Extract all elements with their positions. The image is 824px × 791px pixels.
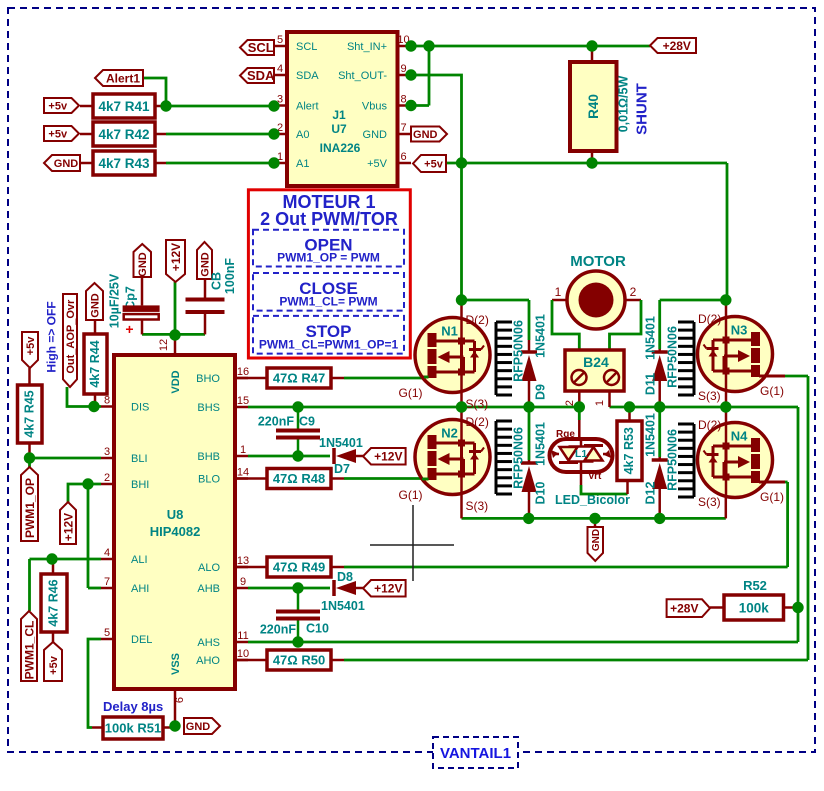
svg-text:Vrt: Vrt	[588, 471, 602, 482]
svg-text:0,01Ω/5W: 0,01Ω/5W	[617, 76, 631, 133]
svg-text:Alert1: Alert1	[106, 71, 140, 85]
svg-text:Delay 8µs: Delay 8µs	[103, 699, 163, 714]
svg-text:RFP50N06: RFP50N06	[512, 320, 526, 382]
svg-text:14: 14	[237, 467, 249, 479]
svg-text:N1: N1	[441, 324, 458, 339]
svg-text:R52: R52	[743, 578, 767, 593]
svg-text:220nF: 220nF	[260, 623, 296, 637]
svg-text:2: 2	[104, 472, 110, 484]
svg-text:G(1): G(1)	[399, 386, 423, 400]
svg-text:S(3): S(3)	[466, 397, 489, 411]
svg-text:VANTAIL1: VANTAIL1	[440, 745, 511, 762]
svg-text:D11: D11	[644, 373, 658, 395]
svg-text:1N5401: 1N5401	[321, 599, 365, 613]
svg-text:S(3): S(3)	[698, 495, 721, 509]
svg-text:MOTOR: MOTOR	[570, 253, 626, 270]
svg-text:+28V: +28V	[670, 601, 698, 615]
svg-text:G(1): G(1)	[760, 384, 784, 398]
svg-text:CB: CB	[210, 272, 224, 290]
svg-text:N4: N4	[731, 429, 748, 444]
svg-text:G(1): G(1)	[399, 488, 423, 502]
svg-text:+12V: +12V	[169, 243, 183, 271]
svg-text:6: 6	[400, 151, 406, 163]
svg-text:N2: N2	[441, 426, 458, 441]
svg-text:L1: L1	[575, 448, 587, 460]
svg-text:BHS: BHS	[197, 402, 220, 414]
svg-text:PWM1_OP: PWM1_OP	[23, 478, 37, 538]
svg-text:2: 2	[630, 285, 637, 299]
svg-text:4k7 R43: 4k7 R43	[98, 156, 150, 171]
svg-text:+: +	[125, 321, 133, 337]
svg-text:VDD: VDD	[170, 370, 182, 393]
svg-text:15: 15	[237, 395, 249, 407]
svg-text:7: 7	[400, 122, 406, 134]
svg-text:+5v: +5v	[424, 158, 444, 170]
svg-text:5: 5	[104, 627, 110, 639]
svg-text:RFP50N06: RFP50N06	[512, 427, 526, 489]
svg-text:GND: GND	[413, 129, 438, 141]
svg-text:1: 1	[555, 285, 562, 299]
svg-text:3: 3	[104, 446, 110, 458]
svg-text:GND: GND	[591, 529, 602, 551]
svg-text:+12V: +12V	[61, 513, 75, 541]
svg-text:47Ω R50: 47Ω R50	[273, 653, 325, 668]
svg-text:4k7 R53: 4k7 R53	[622, 427, 636, 474]
svg-text:4: 4	[277, 63, 283, 75]
svg-text:BLI: BLI	[131, 453, 148, 465]
svg-text:+5v: +5v	[48, 655, 60, 675]
svg-text:220nF: 220nF	[258, 415, 294, 429]
svg-text:R40: R40	[586, 94, 601, 119]
svg-text:1N5401: 1N5401	[534, 422, 548, 466]
svg-text:PWM1_OP = PWM: PWM1_OP = PWM	[277, 251, 380, 265]
svg-text:1N5401: 1N5401	[534, 314, 548, 358]
svg-text:+5v: +5v	[25, 336, 37, 356]
svg-text:100k: 100k	[739, 600, 770, 615]
svg-text:1: 1	[240, 444, 246, 456]
svg-text:4k7 R41: 4k7 R41	[98, 99, 150, 114]
svg-text:RFP50N06: RFP50N06	[666, 326, 680, 388]
svg-text:D(2): D(2)	[698, 312, 721, 326]
svg-text:Sht_IN+: Sht_IN+	[347, 41, 387, 53]
svg-text:J1: J1	[332, 108, 346, 122]
svg-text:+5v: +5v	[48, 100, 68, 112]
svg-text:BHO: BHO	[196, 373, 220, 385]
svg-text:INA226: INA226	[320, 141, 361, 155]
svg-text:DIS: DIS	[131, 402, 149, 414]
svg-text:BLO: BLO	[198, 474, 220, 486]
svg-text:GND: GND	[89, 293, 101, 318]
svg-text:1N5401: 1N5401	[319, 436, 363, 450]
svg-text:SDA: SDA	[296, 70, 319, 82]
svg-text:+12V: +12V	[374, 582, 402, 596]
svg-text:C10: C10	[306, 622, 329, 636]
svg-text:HIP4082: HIP4082	[150, 524, 201, 539]
svg-text:47Ω R47: 47Ω R47	[273, 371, 325, 386]
svg-text:47Ω R48: 47Ω R48	[273, 471, 325, 486]
svg-text:AHO: AHO	[196, 655, 220, 667]
svg-text:G(1): G(1)	[760, 490, 784, 504]
svg-text:Vbus: Vbus	[362, 101, 388, 113]
svg-text:1: 1	[594, 400, 606, 406]
svg-text:BHB: BHB	[197, 451, 220, 463]
svg-text:+5v: +5v	[48, 128, 68, 140]
svg-text:U8: U8	[167, 507, 184, 522]
svg-text:SHUNT: SHUNT	[633, 83, 650, 135]
svg-text:Sht_OUT-: Sht_OUT-	[338, 70, 387, 82]
svg-text:8: 8	[104, 395, 110, 407]
svg-text:9: 9	[240, 576, 246, 588]
svg-text:+28V: +28V	[663, 39, 691, 53]
svg-text:4k7 R44: 4k7 R44	[88, 340, 102, 387]
svg-text:C9: C9	[299, 415, 315, 429]
svg-text:4k7 R42: 4k7 R42	[98, 127, 149, 142]
svg-text:1N5401: 1N5401	[644, 413, 658, 457]
svg-text:D(2): D(2)	[466, 415, 489, 429]
svg-text:A1: A1	[296, 158, 309, 170]
svg-text:RFP50N06: RFP50N06	[666, 429, 680, 491]
svg-text:D10: D10	[534, 481, 548, 504]
svg-text:7: 7	[104, 576, 110, 588]
svg-text:N3: N3	[731, 323, 748, 338]
svg-text:D(2): D(2)	[466, 313, 489, 327]
svg-text:SCL: SCL	[296, 41, 317, 53]
svg-text:D(2): D(2)	[698, 418, 721, 432]
svg-text:B24: B24	[583, 354, 609, 370]
svg-text:GND: GND	[363, 129, 388, 141]
svg-text:AHS: AHS	[197, 637, 220, 649]
svg-text:GND: GND	[137, 252, 149, 277]
svg-text:ALI: ALI	[131, 554, 148, 566]
svg-text:5: 5	[277, 34, 283, 46]
svg-text:4: 4	[104, 547, 110, 559]
svg-text:PWM1_CL: PWM1_CL	[22, 621, 36, 680]
svg-text:100k R51: 100k R51	[105, 721, 161, 736]
svg-text:6: 6	[174, 697, 186, 703]
svg-text:D7: D7	[334, 462, 350, 476]
svg-text:SCL: SCL	[248, 40, 274, 55]
svg-text:1N5401: 1N5401	[644, 316, 658, 360]
svg-text:PWM1_CL=PWM1_OP=1: PWM1_CL=PWM1_OP=1	[259, 338, 399, 352]
svg-text:AHI: AHI	[131, 583, 149, 595]
svg-text:11: 11	[237, 630, 248, 642]
svg-text:GND: GND	[186, 721, 211, 733]
svg-text:4k7 R45: 4k7 R45	[22, 390, 36, 437]
svg-text:+12V: +12V	[374, 450, 402, 464]
svg-text:S(3): S(3)	[698, 389, 721, 403]
svg-text:12: 12	[158, 339, 170, 351]
svg-text:D8: D8	[337, 570, 353, 584]
svg-text:VSS: VSS	[170, 653, 182, 675]
svg-text:PWM1_CL= PWM: PWM1_CL= PWM	[279, 295, 377, 309]
svg-text:SDA: SDA	[247, 68, 275, 83]
svg-text:ALO: ALO	[198, 562, 220, 574]
svg-text:D9: D9	[534, 384, 548, 400]
svg-text:High => OFF: High => OFF	[44, 301, 58, 372]
svg-text:D12: D12	[644, 481, 658, 504]
svg-text:AHB: AHB	[197, 583, 220, 595]
svg-text:DEL: DEL	[131, 634, 152, 646]
svg-text:16: 16	[237, 366, 249, 378]
svg-text:100nF: 100nF	[223, 258, 237, 294]
svg-text:13: 13	[237, 555, 249, 567]
svg-text:10µF/25V: 10µF/25V	[108, 273, 122, 328]
svg-text:Rge: Rge	[556, 429, 575, 440]
svg-text:Out_AOP_Ovr: Out_AOP_Ovr	[65, 299, 77, 374]
svg-text:+5V: +5V	[367, 158, 388, 170]
svg-text:4k7 R46: 4k7 R46	[47, 579, 61, 626]
svg-text:GND: GND	[54, 158, 79, 170]
svg-text:2 Out PWM/TOR: 2 Out PWM/TOR	[260, 209, 398, 229]
svg-text:S(3): S(3)	[466, 499, 489, 513]
svg-text:BHI: BHI	[131, 479, 149, 491]
svg-text:Alert: Alert	[296, 101, 319, 113]
svg-text:10: 10	[237, 648, 249, 660]
svg-text:A0: A0	[296, 129, 309, 141]
svg-text:47Ω R49: 47Ω R49	[273, 560, 325, 575]
svg-text:U7: U7	[331, 122, 347, 136]
